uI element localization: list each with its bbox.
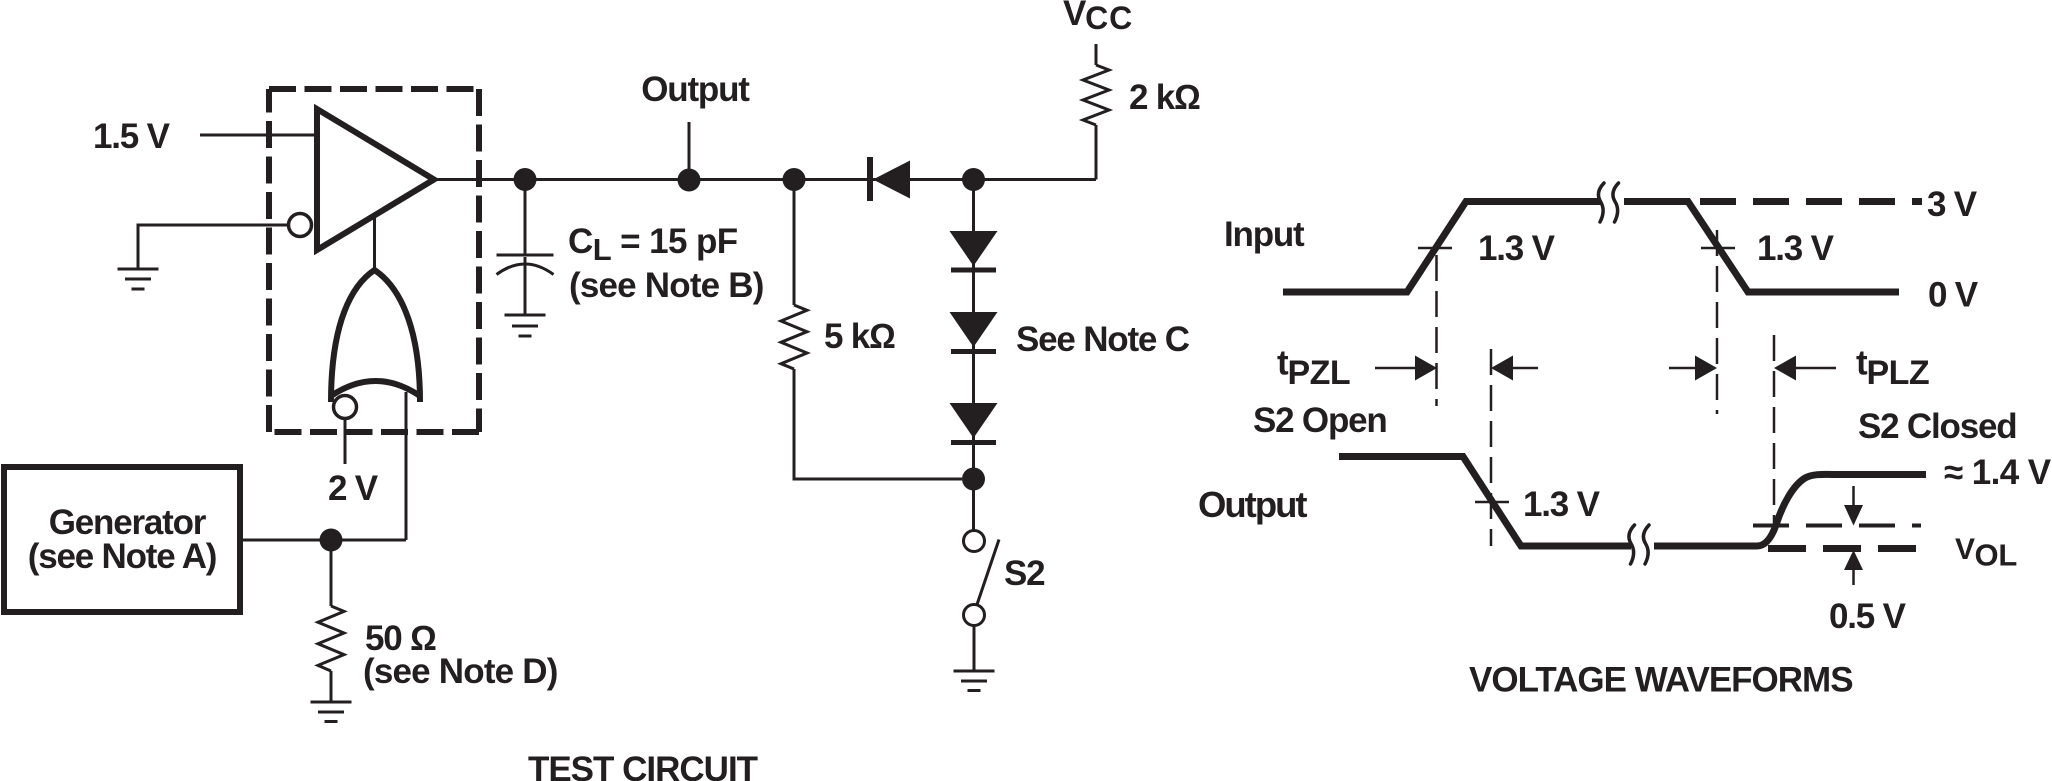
switch S2 bottom contact [964,605,985,626]
ground G1 [118,269,159,289]
svg-text:(see Note A): (see Note A) [28,537,217,576]
ground G4 [954,671,995,691]
svg-text:1.3 V: 1.3 V [1478,229,1556,268]
wire 50ohm to ground [330,671,333,702]
switch S2 lever [977,540,999,605]
ground G2 [311,702,352,722]
tick input fall 1.3V [1701,247,1735,250]
break mark input 2 [1613,183,1619,222]
resistor 2k [1083,65,1109,125]
bubble on 2V input [334,396,357,419]
dashed vertical out rise [1773,335,1776,528]
svg-text:(see Note D): (see Note D) [363,652,558,691]
svg-text:TEST CIRCUIT: TEST CIRCUIT [528,750,758,781]
svg-text:CL = 15 pF: CL = 15 pF [568,222,738,267]
diode D1 [873,161,910,199]
output leader line [688,122,691,169]
svg-text:0 V: 0 V [1928,276,1979,315]
break mark output 1 [1629,525,1635,564]
buffer U1 [317,109,434,250]
svg-text:2 kΩ: 2 kΩ [1129,78,1200,117]
wire node to 50ohm [330,551,333,606]
wire OR right input down [405,392,408,540]
diode D3 [950,312,998,347]
svg-text:Output: Output [1198,484,1307,525]
svg-text:VOLTAGE WAVEFORMS: VOLTAGE WAVEFORMS [1469,661,1853,700]
generator box [4,467,240,612]
wire switch to ground [973,626,976,671]
diode D2 [950,231,998,266]
wire diode string [972,191,975,470]
svg-text:tPLZ: tPLZ [1856,344,1929,393]
arrow down 0.5V [1852,486,1855,506]
capacitor CL [524,191,527,256]
break mark input 1 [1598,183,1604,222]
tick input rise 1.3V [1418,247,1452,250]
wire bubble to 2V [344,418,347,464]
wire 5k [794,191,962,480]
output waveform [1339,457,1926,547]
output wire [437,178,1096,181]
dashed DUT box [269,86,479,92]
wire to 2k resistor [1095,44,1098,180]
svg-text:VCC: VCC [1063,0,1133,36]
switch S2 top contact [964,531,985,552]
node at output leader [678,169,701,192]
svg-text:0.5 V: 0.5 V [1829,597,1907,636]
node at diode string [962,168,985,191]
3V dashed level [1700,198,1922,205]
input waveform [1283,202,1899,293]
svg-text:5 kΩ: 5 kΩ [824,317,895,356]
dashed vertical out fall [1490,349,1493,546]
arrow up 0.5V [1852,570,1855,585]
svg-text:VOL: VOL [1955,533,2017,573]
arrow tPLZ right [1796,367,1836,370]
junction node gen [320,529,343,552]
svg-text:1.3 V: 1.3 V [1757,229,1835,268]
svg-text:≈ 1.4 V: ≈ 1.4 V [1944,453,2052,492]
break mark output 2 [1643,525,1649,564]
diode D4 [950,403,998,438]
diode D1 bar [867,157,873,201]
node at 5k [783,168,806,191]
svg-text:Output: Output [641,70,750,109]
resistor 50 ohm [318,606,344,671]
svg-text:S2 Open: S2 Open [1253,401,1387,440]
VOL dashed level [1768,545,1924,552]
arrow tPZL right [1513,367,1538,370]
wire enable ground lead [138,225,289,269]
svg-text:2 V: 2 V [328,469,379,508]
svg-text:1.5 V: 1.5 V [93,117,171,156]
ground G3 [505,315,546,336]
svg-text:Input: Input [1224,215,1305,254]
OR-gate enable driver [331,270,420,402]
wire 1.5V input lead [200,134,317,137]
resistor 5k [781,305,807,369]
bubble on enable input [289,214,312,237]
wire buffer to OR gate [373,215,376,272]
dashed vertical rise input [1435,255,1438,406]
svg-text:S2 Closed: S2 Closed [1858,407,2016,446]
svg-text:See Note C: See Note C [1016,320,1190,359]
wire node to switch [972,490,975,530]
arrow tPLZ left [1669,367,1695,370]
OR-gate input arc [331,381,420,396]
tick output fall 1.3V [1475,501,1509,504]
svg-text:(see Note B): (see Note B) [569,266,764,305]
svg-text:S2: S2 [1004,554,1045,593]
thin dashed 0.5V level [1753,524,1921,528]
svg-text:3 V: 3 V [1927,185,1978,224]
node at CL [514,168,537,191]
svg-text:1.3 V: 1.3 V [1523,485,1601,524]
junction node diode bottom [962,468,985,491]
svg-text:tPZL: tPZL [1277,344,1350,393]
dashed vertical fall input [1716,230,1719,414]
wire generator to junction [240,539,406,542]
arrow tPZL left [1375,367,1416,370]
